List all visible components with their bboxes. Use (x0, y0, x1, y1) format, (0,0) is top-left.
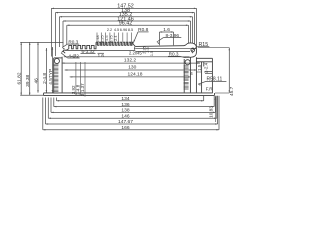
svg-text:4.5: 4.5 (114, 28, 119, 32)
right outer wall (196, 58, 212, 93)
note R0.8 (134, 27, 149, 42)
plate teeth row B raised (96, 42, 135, 46)
svg-text:124.18: 124.18 (128, 71, 143, 77)
svg-text:146: 146 (121, 113, 129, 119)
svg-text:45.7: 45.7 (229, 86, 235, 96)
right dim 10.83 (208, 97, 216, 122)
bottom dimension 166 (43, 96, 219, 131)
right dim 45.7 (198, 48, 235, 96)
note 4-O2 (61, 51, 80, 59)
left dimension 46 (33, 42, 39, 92)
plate underside line 2 (64, 56, 190, 58)
note R15 (191, 42, 209, 54)
svg-text:1.6: 1.6 (163, 27, 170, 33)
right inner wall (195, 57, 197, 92)
svg-text:2.2: 2.2 (107, 28, 112, 32)
svg-text:4.5TYP: 4.5TYP (48, 69, 54, 85)
svg-text:61.82: 61.82 (17, 72, 23, 84)
svg-text:1.5: 1.5 (150, 51, 154, 56)
plate underside line 1 (65, 49, 135, 51)
left chain bottom extension line (20, 94, 44, 96)
top dimension 96.42 (67, 21, 189, 45)
note R0.3 left (62, 39, 79, 49)
svg-text:1.5: 1.5 (197, 64, 202, 71)
bottom dimension 147.67 (46, 96, 218, 125)
dimension 1.6 top (160, 27, 174, 45)
bottom dimension 134 (57, 96, 204, 102)
middle dimension 124.18 (70, 71, 191, 77)
svg-text:138: 138 (121, 108, 129, 114)
left dimension 61.82 (17, 42, 23, 95)
vertical dims 3.92 / 2-4.8 / 3-1.37 (71, 62, 85, 97)
svg-text:F.R: F.R (206, 87, 214, 92)
plate underside right b (135, 51, 190, 53)
top dimension 121.46 (63, 16, 191, 47)
top dimension 138 (55, 8, 194, 56)
middle dimension 132.2 (62, 58, 200, 64)
note 2.2x45 (129, 47, 144, 56)
bottom dimension 138 (51, 96, 216, 114)
plate teeth row A (66, 42, 96, 50)
small vertical dims mid-plate (142, 46, 154, 56)
left dimension 39.38 (25, 42, 31, 95)
svg-text:39.38: 39.38 (25, 74, 31, 86)
plate underside right a (135, 48, 196, 50)
svg-text:2-4.8: 2-4.8 (42, 73, 48, 84)
top dimension 147.52 (51, 4, 196, 57)
middle dimension 130 (65, 64, 197, 70)
svg-text:8-3.96: 8-3.96 (165, 33, 179, 39)
svg-text:R0.8: R0.8 (138, 27, 148, 33)
note 8-3.96 (157, 33, 182, 44)
right dim 1.5 (197, 64, 202, 71)
left dimension 2-4.8 (42, 48, 48, 93)
svg-text:130: 130 (128, 64, 136, 70)
svg-text:R0.3: R0.3 (68, 39, 78, 44)
right lip curl (184, 43, 196, 57)
svg-text:6.96: 6.96 (120, 28, 127, 32)
top dimension 135.2 (59, 12, 192, 47)
svg-text:134: 134 (121, 96, 129, 102)
svg-text:1.6: 1.6 (98, 53, 105, 58)
svg-text:96.42: 96.42 (119, 21, 133, 27)
note F.R (206, 87, 214, 92)
dim 4 right column gap (190, 71, 201, 76)
bottom dimension 146 (48, 96, 217, 120)
svg-text:3-1.37: 3-1.37 (80, 83, 85, 96)
lip screw channel (191, 48, 195, 52)
left dimension 4.5TYP (48, 47, 54, 93)
note 6-3.32 (81, 49, 96, 54)
svg-text:166: 166 (121, 125, 129, 131)
plate top right smooth (135, 45, 184, 48)
svg-text:8.5: 8.5 (128, 28, 133, 32)
svg-text:147.67: 147.67 (118, 119, 133, 125)
right dim 2-2.4 (203, 62, 208, 73)
left serrated boss column (53, 57, 62, 93)
note 1.6 plate thickness (98, 53, 105, 58)
bottom dimension 136 (54, 96, 214, 108)
svg-text:132.2: 132.2 (124, 58, 137, 64)
note R0.3 right (168, 52, 186, 58)
svg-text:136: 136 (121, 102, 129, 108)
note R58.11 (198, 76, 226, 85)
plate left tip (63, 50, 66, 53)
tiny chain dims cluster (96, 28, 133, 45)
svg-text:2-2.4: 2-2.4 (203, 62, 208, 73)
svg-text:10.83: 10.83 (208, 106, 213, 118)
left chain top extension line (20, 41, 63, 43)
svg-text:46: 46 (33, 78, 39, 84)
right serrated boss column (184, 57, 191, 92)
bottom plate (44, 93, 215, 96)
